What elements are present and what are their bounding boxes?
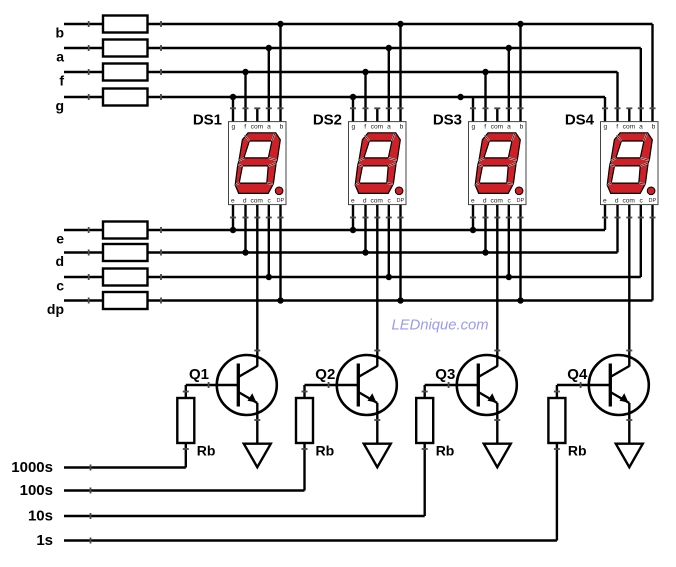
wire DS2 com to Q2 collector <box>376 204 378 367</box>
wire b feed to DS4 pin <box>651 24 653 123</box>
resistor Rb (Q3 base) <box>416 398 433 443</box>
svg-text:Q2: Q2 <box>315 366 335 383</box>
wire Q4 emitter to ground <box>628 403 630 444</box>
svg-text:d: d <box>55 253 64 269</box>
svg-text:c: c <box>56 278 64 294</box>
wire Q3 base <box>425 384 479 386</box>
wire Q4 base <box>557 384 610 386</box>
transistor Q1 (NPN) <box>217 355 277 415</box>
ground Q4 emitter <box>616 444 643 468</box>
wire b left stub <box>64 23 103 25</box>
wire DS4 pin to e bus <box>604 204 606 230</box>
svg-text:1000s: 1000s <box>11 459 53 476</box>
junction b/DS3 <box>517 21 523 27</box>
svg-text:f: f <box>59 73 64 89</box>
junction e/DS1 <box>230 227 236 233</box>
svg-text:DS4: DS4 <box>565 112 595 129</box>
DS1 top com stub <box>256 108 258 123</box>
wire g feed to DS4 pin <box>604 97 606 123</box>
junction c/DS1 <box>266 274 272 280</box>
wire b feed to DS3 pin <box>519 24 521 123</box>
wire g feed to DS1 pin <box>232 97 234 123</box>
wire e left stub <box>64 229 103 231</box>
svg-text:DS2: DS2 <box>313 112 342 129</box>
7-segment display DS1 <box>229 122 287 205</box>
svg-text:Rb: Rb <box>316 443 335 459</box>
wire a left stub <box>64 47 103 49</box>
wire a bus <box>148 47 641 49</box>
wire DS1 pin to d bus <box>244 204 246 253</box>
resistor a <box>103 40 148 57</box>
wire 1000s select line <box>64 466 186 468</box>
junction dp/DS3 <box>517 297 523 303</box>
svg-text:e: e <box>56 231 64 247</box>
7-segment display DS3 <box>469 122 527 205</box>
svg-text:100s: 100s <box>20 482 53 499</box>
wire dp left stub <box>64 299 103 301</box>
transistor Q2 (NPN) <box>337 355 397 415</box>
7-segment display DS2 <box>349 122 407 205</box>
resistor Rb (Q4 base) <box>548 398 565 443</box>
wire Q2 emitter to ground <box>376 403 378 444</box>
wire Q3 emitter to ground <box>496 403 498 444</box>
junction d/DS2 <box>362 249 368 255</box>
junction d/DS3 <box>482 249 488 255</box>
wire DS1 pin to c bus <box>268 204 270 277</box>
wire Rb1 bottom <box>185 443 187 468</box>
wire c left stub <box>64 276 103 278</box>
wire Rb2 bottom <box>303 443 305 491</box>
wire DS1 com to Q1 collector <box>256 204 258 367</box>
wire Q2 base <box>305 384 359 386</box>
junction g/DS2 <box>350 94 356 100</box>
junction e/DS3 <box>470 227 476 233</box>
wire f feed to DS3 pin <box>484 72 486 123</box>
svg-text:b: b <box>55 25 64 41</box>
svg-text:1s: 1s <box>36 532 53 549</box>
junction dp/DS2 <box>397 297 403 303</box>
wire b feed to DS2 pin <box>399 24 401 123</box>
svg-text:DS3: DS3 <box>433 112 462 129</box>
svg-text:Rb: Rb <box>568 443 587 459</box>
wire a feed to DS4 pin <box>640 48 642 123</box>
svg-text:Q3: Q3 <box>435 366 455 383</box>
wire DS4 pin to d bus <box>616 204 618 253</box>
wire DS3 com to Q3 collector <box>496 204 498 367</box>
junction f/DS2 <box>362 69 368 75</box>
wire b bus <box>148 23 653 25</box>
transistor Q3 (NPN) <box>457 355 517 415</box>
junction f/DS1 <box>242 69 248 75</box>
junction b/DS1 <box>277 21 283 27</box>
wire DS1 pin to e bus <box>232 204 234 230</box>
resistor Rb (Q2 base) <box>296 398 313 443</box>
wire g feed to DS2 pin <box>352 97 354 123</box>
junction f/DS3 <box>482 69 488 75</box>
wire DS1 pin to dp bus <box>279 204 281 301</box>
svg-text:Rb: Rb <box>436 443 455 459</box>
junction a/DS1 <box>266 45 272 51</box>
DS3 top com stub <box>496 108 498 123</box>
svg-text:g: g <box>55 98 64 114</box>
wire a feed to DS2 pin <box>388 48 390 123</box>
wire 10s select line <box>64 515 425 517</box>
junction d/DS1 <box>242 249 248 255</box>
svg-text:Q1: Q1 <box>189 366 209 383</box>
junction g/DS1 <box>230 94 236 100</box>
wire DS3 pin to c bus <box>508 204 510 277</box>
wire a feed to DS3 pin <box>508 48 510 123</box>
resistor c <box>103 269 148 286</box>
7-segment display DS4 <box>601 122 659 205</box>
resistor e <box>103 222 148 239</box>
wire f feed to DS2 pin <box>364 72 366 123</box>
svg-text:10s: 10s <box>28 508 53 525</box>
svg-text:Q4: Q4 <box>567 366 588 383</box>
DS2 top com stub <box>376 108 378 123</box>
wire a feed to DS1 pin <box>268 48 270 123</box>
svg-text:dp: dp <box>47 301 64 317</box>
ground Q3 emitter <box>484 444 511 468</box>
wire Q1 emitter to ground <box>256 403 258 444</box>
junction c/DS3 <box>506 274 512 280</box>
wire f bus <box>148 71 618 73</box>
wire DS2 pin to e bus <box>352 204 354 230</box>
wire f left stub <box>64 71 103 73</box>
junction c/DS2 <box>386 274 392 280</box>
wire Rb4 top to base <box>556 385 558 398</box>
DS4 top com stub <box>628 108 630 123</box>
resistor d <box>103 244 148 261</box>
resistor Rb (Q1 base) <box>177 398 194 443</box>
wire b feed to DS1 pin <box>279 24 281 123</box>
wire Rb3 top to base <box>424 385 426 398</box>
wire d left stub <box>64 251 103 253</box>
wire Q1 base <box>186 384 239 386</box>
svg-text:Rb: Rb <box>197 443 216 459</box>
wire DS3 pin to e bus <box>472 204 474 230</box>
wire DS3 pin to d bus <box>484 204 486 253</box>
wire DS2 pin to dp bus <box>399 204 401 301</box>
wire f feed to DS4 pin <box>616 72 618 123</box>
svg-text:a: a <box>56 49 64 65</box>
resistor dp <box>103 292 148 309</box>
wire Rb2 top to base <box>303 385 305 398</box>
wire Rb3 bottom <box>424 443 426 516</box>
wire DS3 pin to dp bus <box>519 204 521 301</box>
wire DS4 pin to c bus <box>640 204 642 277</box>
ground Q1 emitter <box>244 444 271 468</box>
wire DS4 com to Q4 collector <box>628 204 630 367</box>
junction dp/DS1 <box>277 297 283 303</box>
resistor b <box>103 16 148 33</box>
junction e/DS2 <box>350 227 356 233</box>
resistor f <box>103 64 148 81</box>
junction a/DS3 <box>506 45 512 51</box>
transistor Q4 (NPN) <box>589 355 649 415</box>
junction a/DS2 <box>386 45 392 51</box>
wire c bus <box>148 276 641 278</box>
svg-text:LEDnique.com: LEDnique.com <box>392 317 489 333</box>
junction b/DS2 <box>397 21 403 27</box>
wire DS2 pin to c bus <box>388 204 390 277</box>
wire d bus <box>148 251 618 253</box>
wire 100s select line <box>64 489 305 491</box>
wire 1s select line <box>64 539 557 541</box>
resistor g <box>103 89 148 106</box>
wire Rb4 bottom <box>556 443 558 541</box>
wire g left stub <box>64 96 103 98</box>
wire DS4 pin to dp bus <box>651 204 653 301</box>
wire Rb1 top to base <box>185 385 187 398</box>
ground Q2 emitter <box>364 444 391 468</box>
junction g/DS3 <box>457 94 463 100</box>
wire g bus <box>148 96 606 98</box>
wire dp bus <box>148 299 653 301</box>
wire DS2 pin to d bus <box>364 204 366 253</box>
svg-text:DS1: DS1 <box>193 112 222 129</box>
wire e bus <box>148 229 606 231</box>
wire g feed to DS3 pin <box>472 97 474 123</box>
wire f feed to DS1 pin <box>244 72 246 123</box>
